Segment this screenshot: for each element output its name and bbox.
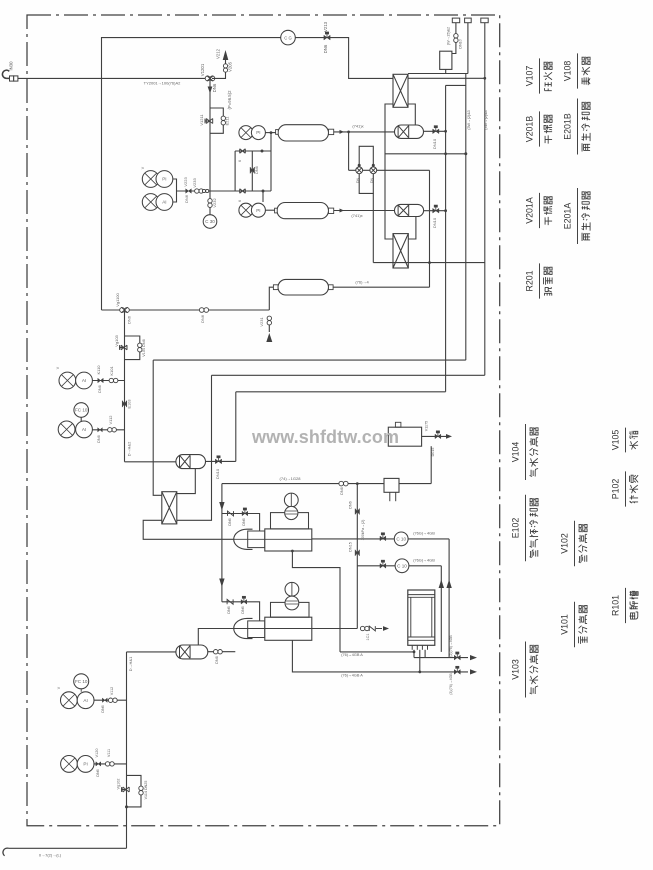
wire distribution rung y191	[176, 190, 271, 192]
wire instrument bracket	[173, 179, 177, 202]
svg-text:C 10: C 10	[397, 563, 407, 568]
svg-text:TY2001→100(76)A2: TY2001→100(76)A2	[144, 81, 181, 86]
arrow on y657.6 outlet	[470, 655, 477, 660]
svg-text:V112: V112	[110, 687, 114, 696]
wire drop x441.3 to cell	[440, 566, 442, 652]
svg-text:DN6: DN6	[228, 518, 232, 525]
svg-text:V112: V112	[108, 415, 113, 425]
wire B column to cooler drop	[408, 104, 415, 125]
valve on y657.6 outlet	[454, 652, 460, 660]
dryer cooler V201A capsule	[395, 204, 424, 216]
svg-text:DN6: DN6	[227, 606, 231, 613]
svg-text:V104: V104	[511, 442, 521, 463]
bypass loop with valve V1211	[210, 108, 223, 133]
wire hydrogen inlet line y78	[9, 77, 209, 79]
wire instrument stub y380.5	[92, 380, 124, 382]
instrument circle FC lower	[74, 674, 89, 689]
svg-text:PI: PI	[256, 130, 260, 135]
svg-text:DN6: DN6	[101, 705, 105, 712]
wire V105 outlet right	[422, 435, 446, 437]
svg-text:C 10: C 10	[396, 537, 406, 542]
svg-text:C 30: C 30	[205, 219, 215, 224]
buffer vessel V201B-feed capsule	[278, 125, 329, 141]
pressure gauge C30	[203, 215, 217, 229]
water tank V105	[388, 427, 421, 446]
wire junction header y310	[102, 309, 270, 311]
junction valve V1201 on inlet line	[205, 76, 215, 81]
svg-text:K101: K101	[109, 366, 114, 376]
svg-text:DN6: DN6	[96, 769, 100, 776]
svg-text:V1201: V1201	[200, 63, 205, 76]
svg-text:AI: AI	[83, 698, 87, 703]
flow meter circle C10 on V102 outlet	[394, 532, 408, 546]
wire instrument stub y763.9	[93, 763, 126, 765]
instrument pair at y763.9	[61, 756, 78, 773]
arrow at V105 outlet	[446, 434, 452, 439]
svg-text:V107: V107	[525, 66, 535, 87]
vent valve V231 below R201 corner	[267, 316, 271, 325]
svg-text:(3W→(2)&3: (3W→(2)&3	[484, 110, 488, 129]
hydrogen separator V102 head	[234, 529, 253, 549]
svg-text:FC 10: FC 10	[75, 679, 88, 684]
drain check valve	[369, 626, 375, 631]
valve DN10 at B cooler outlet	[433, 126, 439, 134]
oxygen separator V101 head	[234, 618, 253, 638]
blind valve on V102 outlet	[380, 533, 386, 541]
R101 legs	[411, 645, 413, 650]
label R201 脱氧器	[525, 263, 540, 298]
instrument pair at y429.4	[58, 421, 75, 438]
wire V101 drain line y628.5	[312, 628, 358, 630]
check valve on V101 dome feed	[227, 599, 233, 604]
svg-text:V102: V102	[560, 533, 570, 554]
label E201A 再生冷却器	[563, 188, 578, 244]
valve V111	[105, 762, 114, 766]
label V103 气水分离器	[511, 642, 526, 698]
svg-text:V103: V103	[511, 659, 521, 680]
svg-text:(P=96.5)2: (P=96.5)2	[227, 90, 232, 110]
wire distribution rung y151	[235, 150, 271, 152]
svg-text:(74)→1G28: (74)→1G28	[280, 476, 302, 481]
svg-text:DN6: DN6	[215, 656, 219, 664]
svg-text:V232: V232	[212, 198, 217, 208]
svg-text:DN6: DN6	[241, 606, 245, 613]
wire B-buffer feed	[265, 132, 277, 134]
label E201B 再生冷却器	[563, 99, 578, 155]
wire top jog x445.6	[446, 84, 466, 86]
svg-text:Vg1100: Vg1100	[115, 292, 120, 306]
svg-text:V213: V213	[323, 21, 328, 32]
valve on rung y191 right	[240, 189, 246, 193]
svg-text:PI: PI	[162, 177, 166, 182]
svg-text:R101: R101	[611, 595, 621, 616]
valve V213 on top header	[324, 32, 330, 40]
svg-text:(76G)→4GB: (76G)→4GB	[413, 558, 435, 563]
blind valve on dome feed	[242, 508, 248, 516]
wire cross header y262.6	[373, 262, 485, 264]
label E102 氢气体冷却器	[511, 495, 526, 561]
svg-text:E211: E211	[225, 116, 230, 126]
svg-text:V105: V105	[611, 430, 621, 451]
wire B dryer feed line y131.5	[334, 131, 395, 133]
svg-text:V101: V101	[560, 614, 570, 635]
wire corner3 header y391.8	[236, 391, 446, 393]
wire ladder mid branch with blind valve	[251, 151, 253, 191]
terminal square 2	[465, 18, 472, 23]
blind valve at stub y429.8	[98, 428, 103, 432]
svg-text:Vg103: Vg103	[114, 334, 119, 346]
flow arrow down on main vertical	[208, 87, 213, 94]
discharge hook	[3, 848, 9, 856]
label V102 氢分离器	[560, 521, 575, 567]
svg-text:V231: V231	[259, 317, 264, 327]
svg-text:DN15: DN15	[349, 542, 353, 552]
wire B column bottom jog	[385, 104, 393, 239]
svg-text:(3W→(2)&3: (3W→(2)&3	[467, 110, 471, 129]
flow arrow down x221.9 upper	[219, 502, 224, 511]
wire V107 bottom tick	[445, 69, 447, 73]
svg-text:DN10: DN10	[215, 468, 220, 479]
wire B column top left stub	[408, 77, 485, 79]
svg-text:(2)(76)→4GB: (2)(76)→4GB	[449, 635, 453, 657]
blind valve on x357.3 upper	[355, 509, 359, 515]
ball valve dryer inlet B	[356, 164, 363, 174]
wire A-buffer feed	[265, 209, 277, 211]
wire O2 discharge drop x126.5	[126, 652, 128, 848]
flow arrow up x449.1	[446, 580, 451, 589]
blind valve V120	[96, 762, 101, 766]
valve at V103 outlet	[214, 650, 223, 654]
valve on y671.9 outlet	[454, 666, 460, 674]
valve on water header	[339, 481, 348, 486]
valve at V105 outlet	[435, 431, 441, 439]
wire V103 feed left corner	[127, 651, 176, 653]
bypass loop Vg103	[125, 336, 140, 360]
label P102 补水泵	[611, 471, 626, 506]
wire H2 liquid return x340	[292, 551, 340, 652]
wire V104 feed drop x124.5	[124, 310, 126, 462]
wire valve bypass rectangle	[359, 146, 373, 167]
wire instrument stub y429.8	[92, 429, 124, 431]
svg-text:V233: V233	[192, 178, 197, 188]
instrument circle FI	[74, 403, 89, 418]
wire drop x449.1 to cell	[448, 539, 450, 658]
instrument pair at y700.2	[61, 692, 78, 709]
tank top fitting	[395, 422, 401, 427]
arrow on y671.9 outlet	[470, 669, 477, 674]
wire R201 outlet riser x429.5	[429, 170, 431, 287]
wire regen header x484.8	[484, 23, 486, 376]
svg-text:DN6: DN6	[127, 315, 132, 324]
wire dryer inlet rung y170	[349, 169, 430, 171]
wire vent header x465.8	[467, 23, 469, 74]
V102 inner chamber	[248, 531, 265, 548]
svg-text:DN10: DN10	[432, 138, 437, 149]
heat exchanger E102 block	[162, 492, 177, 524]
label V108 集水器	[563, 53, 578, 88]
instrument circle on V101 dome lower	[285, 596, 299, 610]
wire V105 drop to water header	[430, 446, 432, 483]
make-up pump P102	[384, 478, 399, 492]
wire A-column bottom line x373.5	[372, 193, 374, 262]
svg-text:V1211: V1211	[199, 114, 204, 126]
wire V102 dome feed y513.5	[222, 514, 260, 532]
wire ladder riser x235	[234, 151, 236, 191]
check valve on dome feed	[228, 511, 234, 516]
blind valve on y565.8	[380, 560, 386, 568]
label R101 电解槽	[611, 588, 626, 623]
instrument circle on V101 dome upper	[285, 582, 299, 596]
separator V104 capsule	[176, 455, 206, 469]
hydrogen cooler shell	[265, 529, 312, 551]
wire V104 outlet to riser x235.8	[206, 460, 236, 462]
blind valve on x357.3 lower	[355, 550, 359, 556]
R101 bottom band	[408, 636, 435, 638]
svg-text:DN10: DN10	[432, 217, 437, 228]
junction valve V1100	[120, 308, 130, 313]
svg-text:(3)(76)→4GB: (3)(76)→4GB	[449, 673, 453, 695]
instrument circle on V102 dome lower	[285, 506, 298, 519]
instrument circle on V102 dome upper	[284, 493, 298, 507]
junction dots	[347, 131, 350, 134]
svg-text:(76)→4GB A: (76)→4GB A	[341, 673, 363, 677]
valve at y700.2	[108, 698, 117, 702]
svg-text:PI: PI	[83, 762, 87, 767]
svg-text:FC 10: FC 10	[75, 408, 88, 413]
wire x357.3 water branch	[356, 484, 358, 629]
svg-text:V120: V120	[95, 749, 99, 758]
blind valve on drop x124.5	[122, 401, 127, 408]
flow arrow down x221.9 lower	[219, 579, 224, 588]
dash-dot battery-limit border	[27, 15, 500, 826]
label V104 气水分离器	[511, 424, 526, 480]
terminal square 1	[452, 18, 459, 23]
wire cell gas line y651.9	[340, 651, 414, 653]
wire main vertical from V1201 junction down	[209, 78, 211, 191]
label V105 水箱	[611, 428, 626, 453]
svg-text:V114 DN25: V114 DN25	[144, 781, 148, 800]
wire regeneration line y153.8	[385, 153, 466, 155]
svg-text:AI: AI	[162, 200, 166, 205]
svg-text:E103: E103	[128, 400, 132, 409]
blind valve on V101 dome feed	[241, 596, 247, 604]
svg-text:DN6: DN6	[97, 435, 101, 443]
instrument pair O2 analyzer	[59, 372, 76, 389]
wire corner2 header y375.3	[212, 374, 485, 376]
wire V103 feed from V101	[198, 629, 233, 646]
wire A cooler outlet	[424, 210, 446, 212]
svg-text:Vg102: Vg102	[117, 779, 121, 790]
wire R201 outlet to riser	[333, 286, 429, 288]
svg-text:DN6: DN6	[255, 166, 259, 174]
svg-text:V1175: V1175	[425, 421, 429, 431]
svg-text:(741)x: (741)x	[352, 124, 363, 129]
svg-text:V104 DN6: V104 DN6	[142, 339, 146, 357]
flange pair at inlet	[10, 76, 18, 81]
V102 dome	[271, 513, 309, 529]
wire gauge drop below rung	[209, 191, 211, 215]
V101 centerline	[234, 628, 312, 630]
instrument pair A-buffer feed	[239, 203, 253, 217]
wire R201 feed from junction line	[269, 287, 273, 310]
wire B column top line to vent header	[408, 73, 468, 75]
valve on rung y151	[240, 149, 246, 153]
svg-text:E201A: E201A	[563, 203, 573, 230]
wire drop to A-buffer instruments	[262, 191, 264, 202]
svg-text:R201: R201	[525, 270, 535, 291]
separator V103 capsule	[176, 645, 208, 659]
svg-text:6: 6	[238, 200, 242, 202]
svg-text:E102: E102	[511, 518, 521, 539]
dryer cooler V201B capsule	[395, 125, 424, 138]
wire corner2 drop x211.5 to E102	[177, 375, 212, 520]
svg-text:DN6: DN6	[340, 487, 344, 495]
svg-text:DN6: DN6	[349, 501, 353, 509]
wire A dryer feed line y210.5	[334, 210, 395, 212]
label V101 氧分离器	[560, 602, 575, 648]
dryer column V201B	[393, 74, 408, 107]
V101 inner chamber	[248, 621, 265, 638]
svg-text:PI: PI	[256, 208, 260, 213]
svg-text:(76G)→4GB: (76G)→4GB	[413, 531, 435, 536]
svg-text:(76)→4GB A: (76)→4GB A	[341, 653, 363, 657]
blind valve at y700.2	[102, 698, 107, 702]
valve DN10 at V104 outlet	[215, 456, 221, 464]
svg-text:DN6: DN6	[242, 518, 246, 525]
svg-text:D→H&1: D→H&1	[128, 656, 133, 671]
valve V232	[208, 199, 212, 208]
wire corner1 drop x153.2 to E102	[153, 360, 162, 495]
valve K101	[109, 378, 118, 382]
V102 centerline	[234, 538, 312, 540]
valve on vent stub	[223, 64, 227, 72]
svg-text:DN6: DN6	[184, 194, 189, 203]
dryer column V201A	[393, 234, 408, 268]
blind valve DN6 on rung y191	[186, 189, 192, 193]
wire B cooler outlet	[424, 130, 446, 132]
wire FI link	[80, 417, 82, 421]
svg-text:DN6: DN6	[98, 385, 102, 393]
oxygen cooler shell	[265, 617, 312, 640]
electrolyzer R101 body	[408, 590, 435, 645]
wire O2 discharge bottom run	[9, 847, 127, 849]
flow meter circle C10 on y565.8	[395, 559, 409, 573]
wire dry-gas header x445.6	[445, 85, 447, 391]
hose hook at line end	[2, 70, 9, 78]
valve DN10 at A cooler outlet	[433, 205, 439, 213]
wire water drop x221.9	[221, 484, 223, 602]
wire V104 bottom to E102	[177, 469, 196, 494]
label V107 阻火器	[525, 58, 540, 93]
wire O2 liquid return y671.9	[292, 640, 468, 672]
flow arrow on A feed	[340, 209, 345, 213]
svg-text:(741)x: (741)x	[351, 213, 362, 218]
drain arrow	[376, 628, 382, 630]
svg-text:E201B: E201B	[563, 113, 573, 140]
wire V102 gas outlet y538.9	[312, 538, 449, 540]
svg-text:V111: V111	[107, 749, 111, 757]
deoxidizer R201 capsule	[278, 279, 329, 295]
pressure gauge circle on top header	[281, 30, 296, 45]
wire E102 to V102 head	[143, 520, 234, 539]
svg-text:DN6: DN6	[200, 314, 205, 323]
bypass loop Vg102 V114	[127, 775, 142, 807]
wire corner1 header y360.1	[153, 359, 466, 361]
svg-text:AI: AI	[82, 427, 86, 432]
valve V112	[108, 428, 117, 432]
vent arrow below V231	[268, 325, 270, 332]
svg-text:D→H&2: D→H&2	[127, 441, 132, 456]
svg-text:DN6: DN6	[212, 83, 217, 92]
terminal square 3	[481, 18, 488, 23]
flow arrow up x441.3	[439, 580, 444, 589]
wire electrolyte line y565.8	[357, 565, 441, 567]
instrument pair B-buffer feed	[239, 126, 253, 140]
svg-text:6: 6	[238, 160, 242, 162]
wire riser x235.8 from corner3	[235, 392, 237, 462]
svg-text:V223: V223	[183, 177, 188, 187]
wire V104 feed corner to vessel	[125, 461, 176, 463]
drain valve	[360, 626, 369, 630]
valve on header y310	[199, 308, 208, 313]
V101 dome	[271, 602, 310, 617]
instrument cluster H2 inlet 2x2	[142, 171, 159, 188]
vent arrow V212	[223, 50, 229, 60]
wire cell outlet y657.6	[414, 657, 468, 659]
ball valve dryer inlet A	[370, 164, 377, 174]
flow arrow on B feed	[340, 130, 345, 134]
wire square1 drop with valve DN10	[452, 23, 456, 54]
label V201B 干燥器	[525, 111, 540, 146]
svg-text:P102: P102	[611, 479, 621, 500]
svg-text:K110: K110	[96, 365, 101, 375]
wire main O2-system riser and top header to dryer feed	[102, 38, 394, 310]
svg-text:DN6: DN6	[323, 44, 328, 53]
svg-text:(76)→4: (76)→4	[355, 280, 369, 285]
svg-text:IN30: IN30	[9, 61, 14, 71]
svg-text:DN10: DN10	[459, 39, 463, 48]
wire V103 outlet stub	[208, 651, 236, 653]
svg-text:V212: V212	[216, 48, 221, 59]
svg-text:(W→15)&2: (W→15)&2	[447, 27, 451, 45]
wire instrument stub y700.2	[93, 699, 126, 701]
svg-text:V205: V205	[228, 61, 233, 72]
flame arrestor V107 vessel	[440, 51, 452, 69]
svg-text:100kPa→(2): 100kPa→(2)	[361, 520, 365, 541]
wire V101 dome feed y601.8	[222, 602, 260, 621]
buffer vessel V201A-feed capsule	[277, 203, 329, 219]
svg-text:1C1: 1C1	[366, 634, 370, 641]
R101 top band	[408, 594, 435, 596]
svg-text:0→7(2)→(L): 0→7(2)→(L)	[39, 853, 62, 858]
svg-text:www.shfdtw.com: www.shfdtw.com	[251, 427, 399, 447]
wire A column top-right jog	[408, 216, 416, 239]
wire ladder riser x271	[270, 133, 272, 191]
R101 inner walls	[410, 597, 412, 637]
svg-text:V108: V108	[563, 61, 573, 82]
wire vent stub V212	[212, 60, 226, 78]
wire water header y483.6	[222, 483, 431, 485]
svg-text:V201B: V201B	[525, 116, 535, 143]
svg-text:C G: C G	[284, 36, 291, 41]
svg-text:AI: AI	[82, 378, 86, 383]
label V201A 干燥器	[525, 193, 540, 228]
valve V223 on rung y191	[195, 189, 204, 193]
blind valve K110	[98, 378, 103, 382]
wire riser x348.6 lower	[348, 132, 350, 170]
svg-text:V201A: V201A	[525, 197, 535, 224]
